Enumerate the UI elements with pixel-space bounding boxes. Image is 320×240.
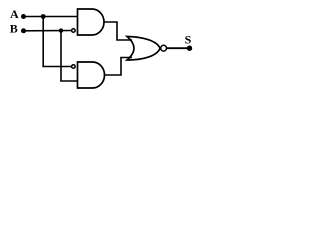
- junction A: [41, 14, 46, 19]
- terminal dot B: [21, 28, 26, 33]
- wire output to S: [167, 47, 189, 49]
- svg-text:S: S: [185, 33, 192, 47]
- terminal dot A: [21, 14, 26, 19]
- svg-text:B: B: [10, 22, 18, 36]
- AND gate U1: [78, 9, 105, 35]
- wire B horizontal: [24, 30, 72, 32]
- terminal dot S: [187, 46, 192, 51]
- input bubble U1: [72, 29, 76, 33]
- wire A elbow to U2 bubble: [42, 66, 71, 68]
- junction B: [59, 28, 63, 32]
- AND gate U2: [78, 62, 105, 88]
- wire A horizontal: [24, 16, 78, 18]
- wire U1 output to OR upper input: [104, 22, 132, 40]
- svg-text:A: A: [10, 7, 19, 21]
- NOR output bubble: [161, 45, 167, 51]
- NOR gate U3 body: [127, 37, 160, 61]
- wire B elbow to U2 lower input: [60, 80, 78, 82]
- wire U2 output to OR lower input: [105, 58, 133, 76]
- wire A vertical drop: [42, 17, 44, 67]
- input bubble U2: [72, 65, 76, 69]
- wire B vertical drop: [60, 31, 62, 81]
